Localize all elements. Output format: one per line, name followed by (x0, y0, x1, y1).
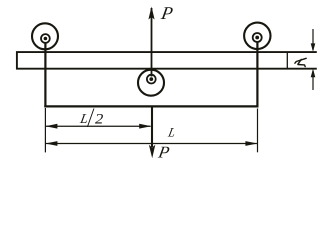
wire bracket bottom (44, 105, 258, 107)
svg-text:P: P (156, 143, 171, 161)
extension line right (257, 109, 259, 153)
dimension L/2 (45, 124, 151, 129)
beam section divider (286, 52, 288, 69)
force P up arrow (148, 7, 154, 77)
roller left (32, 23, 58, 49)
svg-text:L: L (166, 125, 177, 140)
wire right support (256, 42, 258, 107)
wire left support (44, 43, 46, 107)
dimension L (45, 141, 257, 146)
svg-text:P: P (159, 3, 174, 23)
force P down arrow (149, 106, 155, 159)
beam (17, 52, 317, 69)
svg-text:2: 2 (95, 111, 104, 127)
label h (295, 58, 306, 66)
roller right (244, 23, 270, 49)
svg-text:/: / (86, 103, 95, 133)
dimension h (311, 29, 316, 90)
roller center (138, 70, 164, 96)
extension line left (44, 108, 46, 152)
